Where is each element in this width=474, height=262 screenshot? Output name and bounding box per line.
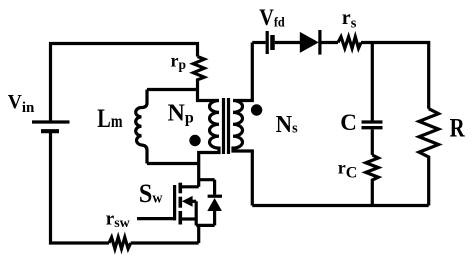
resistor rp <box>193 57 204 90</box>
dot primary polarity <box>189 135 200 146</box>
label Sw <box>139 180 163 208</box>
label Vin <box>8 92 35 116</box>
label rp <box>171 50 187 72</box>
label rsw <box>106 208 131 231</box>
diode D output rectifier <box>300 30 320 55</box>
svg-text:C: C <box>340 110 357 135</box>
wire Lm bottom <box>147 162 199 165</box>
wire gate lead Sw <box>137 217 175 220</box>
label C <box>340 110 357 135</box>
label Lm <box>97 105 123 134</box>
voltage source Vin (battery) <box>32 122 70 131</box>
wire drain to diode branch <box>199 178 215 181</box>
transformer primary winding Np <box>198 90 220 187</box>
svg-text:Np: Np <box>168 101 194 127</box>
svg-text:rp: rp <box>171 50 187 72</box>
diode body antiparallel <box>207 180 222 226</box>
wire Lm top <box>147 88 198 91</box>
svg-text:Vfd: Vfd <box>259 5 285 30</box>
transformer core <box>224 98 229 154</box>
resistor rs <box>338 37 361 48</box>
wire bottom rail to MOSFET source <box>131 241 199 244</box>
resistor R load <box>419 109 439 206</box>
wire Vfd to diode <box>275 41 300 44</box>
svg-text:rC: rC <box>338 157 358 181</box>
inductor Lm <box>136 90 147 164</box>
label R <box>450 114 466 143</box>
wire bottom rail secondary <box>252 204 428 207</box>
svg-text:rs: rs <box>342 7 357 32</box>
transformer secondary winding Ns <box>233 43 252 206</box>
svg-text:Ns: Ns <box>276 111 298 138</box>
transistor Q Sw MOSFET <box>175 183 199 226</box>
resistor rC <box>366 155 379 206</box>
wire diode bottom to source <box>196 224 214 227</box>
label Np <box>168 101 194 127</box>
wire diode to rs <box>320 41 338 44</box>
svg-text:Sw: Sw <box>139 180 163 208</box>
label rC <box>338 157 358 181</box>
wire top-left rail from Vin to rp <box>51 44 198 121</box>
wire top rail to R branch <box>361 43 429 109</box>
label Ns <box>276 111 298 138</box>
label Vfd <box>259 5 285 30</box>
voltage source Vfd (battery) <box>267 31 272 54</box>
label rs <box>342 7 357 32</box>
wire top rail secondary to Vfd <box>252 41 265 44</box>
wire source to bottom rail <box>197 225 200 243</box>
wire C branch top <box>371 43 374 121</box>
capacitor C <box>362 122 383 128</box>
svg-text:R: R <box>450 114 466 143</box>
wire Vin negative to bottom rail <box>51 133 110 243</box>
wire C to rC <box>371 129 374 155</box>
resistor rsw <box>109 237 131 248</box>
svg-text:Vin: Vin <box>8 92 35 116</box>
svg-text:Lm: Lm <box>97 105 123 134</box>
svg-text:rsw: rsw <box>106 208 131 231</box>
dot secondary polarity <box>251 104 262 115</box>
